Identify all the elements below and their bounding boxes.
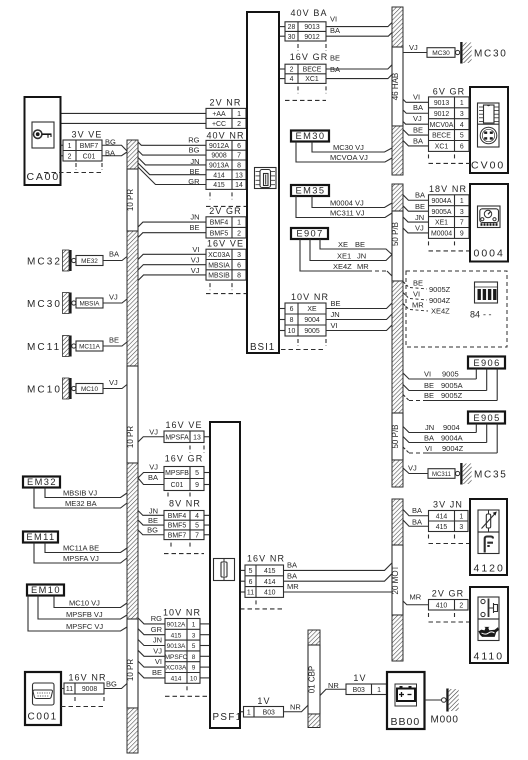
svg-text:BE: BE	[355, 240, 365, 249]
svg-text:50 P/B: 50 P/B	[391, 222, 400, 246]
svg-text:XE1: XE1	[337, 251, 351, 260]
svg-text:2: 2	[290, 67, 294, 74]
svg-text:EM10: EM10	[31, 585, 61, 595]
svg-text:9005: 9005	[442, 369, 459, 378]
svg-text:GR: GR	[151, 625, 163, 634]
svg-text:5: 5	[192, 643, 196, 650]
svg-text:MPSFC VJ: MPSFC VJ	[66, 622, 103, 631]
svg-text:9013A: 9013A	[209, 163, 229, 170]
svg-text:MPSFA VJ: MPSFA VJ	[63, 554, 99, 563]
svg-text:RG: RG	[188, 136, 199, 145]
svg-text:EM35: EM35	[296, 185, 326, 195]
svg-text:5: 5	[460, 133, 464, 140]
svg-text:VJ: VJ	[109, 378, 118, 387]
svg-text:BMF5: BMF5	[210, 230, 229, 237]
svg-text:1V: 1V	[353, 673, 366, 683]
svg-text:11: 11	[66, 686, 73, 693]
svg-text:MC311: MC311	[432, 472, 452, 478]
svg-text:BE: BE	[109, 336, 119, 345]
svg-text:JN: JN	[415, 213, 424, 222]
svg-text:5: 5	[195, 523, 199, 530]
svg-text:BE: BE	[424, 391, 434, 400]
svg-text:8: 8	[237, 273, 241, 280]
svg-text:JN: JN	[357, 251, 366, 260]
svg-text:BMF5: BMF5	[168, 523, 187, 530]
svg-text:VI: VI	[331, 321, 338, 330]
svg-text:BSI1: BSI1	[250, 342, 275, 353]
svg-text:M0004 VJ: M0004 VJ	[330, 198, 364, 207]
svg-text:BA: BA	[413, 103, 423, 112]
svg-text:B03: B03	[263, 709, 275, 716]
svg-text:VJ: VJ	[408, 464, 417, 473]
svg-text:4120: 4120	[474, 563, 505, 575]
svg-text:9004Z: 9004Z	[442, 444, 464, 453]
svg-text:BE: BE	[424, 381, 434, 390]
svg-text:415: 415	[213, 182, 225, 189]
svg-text:ME32: ME32	[81, 258, 98, 265]
svg-text:XE4Z: XE4Z	[431, 307, 450, 316]
svg-text:BMF4: BMF4	[210, 220, 229, 227]
svg-text:16V NR: 16V NR	[247, 554, 285, 564]
svg-text:VI: VI	[413, 92, 420, 101]
svg-text:84: 84	[470, 310, 480, 320]
svg-text:VJ: VJ	[413, 114, 422, 123]
svg-text:VJ: VJ	[149, 427, 158, 436]
svg-text:6: 6	[249, 579, 253, 586]
svg-text:9012A: 9012A	[209, 143, 229, 150]
svg-text:VI: VI	[413, 290, 420, 299]
svg-text:VJ: VJ	[415, 224, 424, 233]
svg-text:1: 1	[377, 687, 381, 694]
svg-text:BE: BE	[330, 54, 340, 63]
svg-text:MBSIA: MBSIA	[80, 301, 101, 308]
svg-text:3: 3	[460, 111, 464, 118]
svg-text:1: 1	[192, 622, 196, 629]
svg-text:3: 3	[192, 632, 196, 639]
svg-text:BMF7: BMF7	[80, 143, 99, 150]
svg-text:0004: 0004	[474, 248, 505, 260]
svg-text:9012: 9012	[304, 34, 319, 41]
svg-text:MBSIB: MBSIB	[208, 273, 230, 280]
svg-text:MC11A BE: MC11A BE	[63, 543, 99, 552]
svg-text:BA: BA	[412, 517, 422, 526]
svg-text:MPSFA: MPSFA	[165, 434, 189, 441]
svg-text:4: 4	[290, 76, 294, 83]
svg-text:1: 1	[247, 709, 251, 716]
svg-text:3: 3	[459, 524, 463, 531]
svg-text:EM32: EM32	[27, 477, 57, 487]
svg-text:MC311 VJ: MC311 VJ	[330, 208, 365, 217]
svg-text:13: 13	[235, 172, 243, 179]
svg-text:16V NR: 16V NR	[68, 673, 106, 683]
svg-text:XC1: XC1	[435, 144, 449, 151]
svg-text:BE: BE	[415, 202, 425, 211]
svg-text:9008: 9008	[82, 686, 97, 693]
svg-text:410: 410	[436, 602, 448, 609]
svg-text:M0004: M0004	[431, 231, 452, 238]
svg-text:MC30: MC30	[27, 299, 62, 310]
svg-text:XC03A: XC03A	[208, 252, 230, 259]
svg-text:16V VE: 16V VE	[165, 420, 202, 430]
svg-text:4: 4	[460, 122, 464, 129]
svg-text:16V VE: 16V VE	[207, 238, 244, 248]
svg-text:VI: VI	[192, 245, 199, 254]
svg-text:9008: 9008	[211, 153, 226, 160]
svg-text:C01: C01	[83, 153, 96, 160]
svg-text:415: 415	[171, 632, 182, 639]
svg-text:9004Z: 9004Z	[429, 296, 451, 305]
svg-text:MC32: MC32	[27, 256, 62, 267]
svg-text:3: 3	[460, 209, 464, 216]
svg-text:C001: C001	[28, 712, 58, 723]
svg-text:1: 1	[237, 220, 241, 227]
svg-text:2: 2	[68, 153, 72, 160]
svg-text:MC30: MC30	[474, 49, 507, 60]
svg-text:9012: 9012	[434, 111, 449, 118]
svg-text:BE: BE	[331, 299, 341, 308]
svg-text:9005A: 9005A	[441, 381, 463, 390]
svg-text:3V VE: 3V VE	[71, 130, 102, 140]
svg-text:BG: BG	[189, 146, 200, 155]
svg-text:2V GR: 2V GR	[432, 588, 465, 598]
svg-text:50 P/B: 50 P/B	[391, 424, 400, 448]
svg-text:6V GR: 6V GR	[433, 86, 466, 96]
svg-text:BA: BA	[148, 473, 158, 482]
svg-text:E906: E906	[473, 358, 500, 368]
svg-text:VI: VI	[425, 444, 432, 453]
svg-text:4110: 4110	[474, 651, 505, 663]
svg-text:11: 11	[247, 590, 254, 597]
svg-text:B03: B03	[353, 687, 365, 694]
svg-text:8: 8	[237, 163, 241, 170]
svg-text:6: 6	[237, 262, 241, 269]
svg-text:415: 415	[436, 524, 448, 531]
svg-text:10 PR: 10 PR	[126, 426, 135, 448]
svg-text:VJ: VJ	[149, 463, 158, 472]
svg-text:18V NR: 18V NR	[429, 184, 467, 194]
svg-text:BA: BA	[287, 561, 297, 570]
svg-text:1: 1	[460, 198, 464, 205]
svg-text:VJ: VJ	[109, 293, 118, 302]
svg-text:5: 5	[195, 470, 199, 477]
svg-text:MC35: MC35	[474, 470, 507, 481]
svg-text:BA: BA	[415, 191, 425, 200]
svg-text:MC10 VJ: MC10 VJ	[69, 598, 100, 607]
svg-text:8V NR: 8V NR	[169, 499, 201, 509]
svg-text:MPSFB: MPSFB	[165, 470, 189, 477]
svg-text:BA: BA	[330, 65, 340, 74]
svg-text:9: 9	[460, 231, 464, 238]
svg-text:415: 415	[264, 568, 276, 575]
svg-text:8: 8	[290, 317, 294, 324]
svg-text:MC10: MC10	[81, 386, 98, 393]
svg-text:7: 7	[237, 153, 241, 160]
svg-text:XC1: XC1	[305, 76, 319, 83]
svg-text:9005: 9005	[304, 328, 319, 335]
svg-text:XE4Z: XE4Z	[333, 262, 352, 271]
svg-text:3V JN: 3V JN	[433, 499, 463, 509]
svg-text:14: 14	[235, 182, 243, 189]
svg-text:MR: MR	[412, 301, 424, 310]
svg-text:BA: BA	[424, 433, 434, 442]
svg-text:01 CBP: 01 CBP	[308, 666, 317, 694]
svg-text:MC10: MC10	[27, 384, 62, 395]
svg-text:BECE: BECE	[303, 67, 322, 74]
svg-text:414: 414	[213, 172, 225, 179]
svg-text:1: 1	[237, 111, 241, 118]
svg-text:XE: XE	[338, 240, 348, 249]
svg-text:1: 1	[68, 143, 72, 150]
svg-text:MBSIB VJ: MBSIB VJ	[63, 488, 97, 497]
svg-text:EM30: EM30	[296, 131, 326, 141]
svg-text:ME32 BA: ME32 BA	[65, 499, 97, 508]
svg-text:+CC: +CC	[212, 121, 226, 128]
svg-text:1V: 1V	[257, 696, 270, 706]
svg-text:VJ: VJ	[153, 646, 162, 655]
svg-text:9004A: 9004A	[441, 433, 463, 442]
svg-text:MR: MR	[287, 582, 299, 591]
svg-text:9004: 9004	[304, 317, 319, 324]
svg-text:16V GR: 16V GR	[290, 52, 329, 62]
svg-text:JN: JN	[153, 636, 162, 645]
svg-text:BB00: BB00	[391, 716, 421, 728]
svg-text:RG: RG	[151, 614, 162, 623]
svg-text:10V NR: 10V NR	[163, 608, 201, 618]
svg-text:16V GR: 16V GR	[165, 454, 204, 464]
svg-text:30: 30	[288, 34, 296, 41]
svg-text:XE1: XE1	[435, 220, 448, 227]
svg-text:410: 410	[264, 590, 276, 597]
svg-text:5: 5	[249, 568, 253, 575]
svg-text:8: 8	[192, 654, 196, 661]
svg-text:10 PR: 10 PR	[126, 659, 135, 681]
svg-text:2: 2	[237, 230, 241, 237]
svg-text:414: 414	[264, 579, 276, 586]
svg-text:7: 7	[195, 532, 199, 539]
svg-text:7: 7	[460, 220, 464, 227]
svg-text:9013A: 9013A	[167, 643, 186, 650]
svg-text:JN: JN	[425, 423, 434, 432]
svg-text:VJ: VJ	[191, 266, 200, 275]
svg-text:BA: BA	[109, 250, 119, 259]
svg-text:C01: C01	[171, 482, 184, 489]
svg-text:6: 6	[290, 306, 294, 313]
svg-text:BA: BA	[330, 26, 340, 35]
svg-text:MC30 VJ: MC30 VJ	[333, 143, 364, 152]
svg-text:2V NR: 2V NR	[209, 97, 241, 107]
svg-text:VI: VI	[330, 15, 337, 24]
svg-text:VJ: VJ	[409, 43, 418, 52]
svg-text:BE: BE	[152, 668, 162, 677]
svg-text:40V BA: 40V BA	[290, 8, 327, 18]
svg-text:9005Z: 9005Z	[441, 391, 463, 400]
svg-text:20 MOT: 20 MOT	[391, 565, 400, 594]
svg-text:MPSFB VJ: MPSFB VJ	[66, 610, 103, 619]
svg-text:MC11: MC11	[27, 342, 61, 353]
svg-text:BE: BE	[413, 126, 423, 135]
svg-text:M000: M000	[431, 715, 459, 726]
svg-text:JN: JN	[331, 310, 340, 319]
svg-text:9012A: 9012A	[167, 622, 186, 629]
svg-text:4: 4	[195, 513, 199, 520]
svg-text:MC11A: MC11A	[79, 344, 101, 351]
svg-text:MCV0A: MCV0A	[430, 122, 454, 129]
svg-text:3: 3	[237, 252, 241, 259]
svg-text:XC03A: XC03A	[166, 665, 187, 672]
svg-text:MBSIA: MBSIA	[208, 262, 230, 269]
svg-text:NR: NR	[328, 681, 339, 690]
svg-text:9013: 9013	[434, 100, 449, 107]
svg-text:BE: BE	[413, 279, 423, 288]
svg-text:46 HAB: 46 HAB	[391, 73, 400, 101]
svg-text:BMF7: BMF7	[168, 532, 187, 539]
svg-text:1: 1	[459, 513, 463, 520]
svg-text:9005Z: 9005Z	[429, 285, 451, 294]
svg-text:2V GR: 2V GR	[209, 206, 242, 216]
svg-text:10V NR: 10V NR	[291, 292, 329, 302]
svg-text:EM11: EM11	[26, 532, 55, 542]
svg-text:MPSFC: MPSFC	[165, 654, 188, 661]
svg-text:9004A: 9004A	[432, 198, 452, 205]
svg-text:- -: - -	[483, 310, 492, 320]
svg-text:BA: BA	[412, 506, 422, 515]
svg-text:BA: BA	[287, 571, 297, 580]
svg-text:40V NR: 40V NR	[206, 130, 244, 140]
svg-text:VI: VI	[155, 657, 162, 666]
svg-text:9013: 9013	[304, 24, 319, 31]
svg-text:9: 9	[192, 665, 196, 672]
svg-text:9005A: 9005A	[432, 209, 452, 216]
svg-text:E905: E905	[473, 413, 500, 423]
svg-text:E907: E907	[296, 228, 323, 238]
svg-text:2: 2	[459, 602, 463, 609]
svg-text:VJ: VJ	[191, 256, 200, 265]
svg-text:6: 6	[237, 143, 241, 150]
svg-text:JN: JN	[149, 506, 158, 515]
svg-text:1: 1	[460, 100, 464, 107]
svg-text:BECE: BECE	[432, 133, 451, 140]
svg-text:10: 10	[190, 676, 198, 683]
svg-text:BMF4: BMF4	[168, 513, 187, 520]
svg-text:CV00: CV00	[471, 160, 505, 172]
svg-text:2: 2	[237, 121, 241, 128]
svg-text:BE: BE	[148, 516, 158, 525]
svg-text:414: 414	[436, 513, 448, 520]
svg-text:13: 13	[193, 434, 201, 441]
svg-text:MC30: MC30	[432, 50, 450, 57]
svg-text:BE: BE	[189, 223, 199, 232]
svg-text:BG: BG	[106, 680, 117, 689]
svg-text:6: 6	[460, 144, 464, 151]
svg-text:VI: VI	[424, 369, 431, 378]
svg-text:+AA: +AA	[212, 111, 226, 118]
svg-text:28: 28	[288, 24, 296, 31]
svg-text:414: 414	[171, 676, 182, 683]
svg-text:NR: NR	[290, 703, 301, 712]
svg-text:9: 9	[195, 482, 199, 489]
svg-text:MR: MR	[410, 593, 422, 602]
svg-text:MR: MR	[357, 262, 369, 271]
svg-text:JN: JN	[190, 212, 199, 221]
svg-text:9004: 9004	[443, 423, 460, 432]
svg-text:10: 10	[288, 328, 296, 335]
svg-text:XE: XE	[307, 306, 317, 313]
svg-text:MCVOA VJ: MCVOA VJ	[330, 153, 368, 162]
svg-text:PSF1: PSF1	[213, 712, 243, 723]
svg-text:10 PR: 10 PR	[126, 189, 135, 211]
svg-text:BG: BG	[147, 526, 158, 535]
svg-text:BA: BA	[413, 136, 423, 145]
